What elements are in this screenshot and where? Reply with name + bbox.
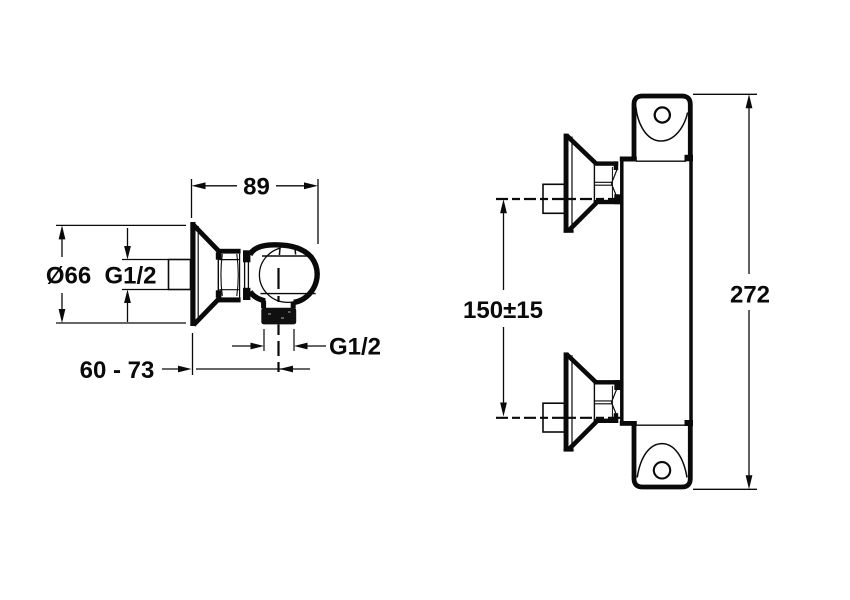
bottom plate keyhole slot curve xyxy=(637,444,687,478)
bottom inlet nut chevrons xyxy=(611,387,617,418)
dim 272 extension bottom xyxy=(693,488,757,490)
valve body outline top arc xyxy=(250,245,317,302)
valve body inner circle xyxy=(259,247,316,302)
dim G1/2 inlet extension bottom xyxy=(122,289,169,291)
dim 89 arrow left xyxy=(192,182,206,189)
dim 60-73 line xyxy=(162,368,310,370)
top plate keyhole slot curve xyxy=(636,107,688,142)
dim G1/2 outlet arrow left xyxy=(251,343,265,350)
dim G1/2 inlet arrow up xyxy=(124,290,131,304)
connector ring bottom block xyxy=(243,288,250,300)
body chord bottom xyxy=(261,293,316,295)
top plate junction left block xyxy=(620,157,637,162)
dim G1/2 outlet extension right xyxy=(293,329,295,351)
top inlet nut facet lines xyxy=(594,182,611,185)
bottom inlet nut top bar xyxy=(594,380,624,384)
bottom inlet centerline (dashed) xyxy=(496,417,622,419)
svg-text:89: 89 xyxy=(243,174,270,201)
wall flange bar (side view) xyxy=(190,222,195,326)
dim 89 extension line left xyxy=(191,179,193,218)
svg-text:Ø66: Ø66 xyxy=(46,263,91,290)
connector ring top block xyxy=(243,250,250,262)
svg-text:60 - 73: 60 - 73 xyxy=(80,357,155,384)
inlet stub (side view) xyxy=(169,260,191,290)
body bar right edge xyxy=(689,161,693,424)
dim 150±15 arrow down xyxy=(500,403,507,417)
body bar left edge xyxy=(620,158,624,422)
dim 272 extension top xyxy=(693,93,757,95)
dim Ø66 arrow up xyxy=(59,225,66,239)
wall flange inner line xyxy=(197,226,199,322)
top inlet flange bottom cap xyxy=(564,230,574,233)
hex nut left edge xyxy=(217,252,219,299)
dim Ø66 extension top xyxy=(56,224,186,226)
outlet nut (knurled, dark) xyxy=(261,308,296,325)
bottom mounting plate xyxy=(634,423,690,487)
bottom inlet stub xyxy=(543,403,565,432)
bottom inlet flange inner line xyxy=(571,355,573,449)
top inlet cone top slant xyxy=(567,135,597,164)
top inlet flange bar xyxy=(564,134,569,233)
valve body outline bottom-left arc xyxy=(250,292,265,301)
svg-text:G1/2: G1/2 xyxy=(104,263,156,290)
hex nut top bar xyxy=(218,249,241,254)
top inlet nut top bar xyxy=(594,161,619,165)
flange cone top slant xyxy=(194,225,220,251)
hex nut corner block bottom-left xyxy=(216,290,222,297)
hex nut barrel curves xyxy=(221,254,238,296)
dim Ø66 line xyxy=(61,239,63,309)
bottom inlet nut bottom bar xyxy=(594,419,619,423)
svg-text:272: 272 xyxy=(730,282,770,309)
bottom inlet nut block bottom-right xyxy=(614,413,619,423)
top plate junction right block xyxy=(685,155,694,162)
top inlet nut left edge xyxy=(593,166,595,200)
hex nut facet lines xyxy=(219,254,239,298)
dim 60-73 extension line xyxy=(192,333,194,375)
bottom inlet flange bottom cap xyxy=(564,448,574,451)
top mounting plate xyxy=(634,96,690,161)
bottom plate screw hole xyxy=(654,462,670,478)
dim 150±15 arrow up xyxy=(500,199,507,213)
dim 89 arrow right xyxy=(304,182,318,189)
top inlet stub xyxy=(543,184,565,213)
bottom inlet cone bottom slant xyxy=(569,422,597,450)
cartridge cap bump xyxy=(279,246,295,255)
dim G1/2 inlet extension top xyxy=(122,259,169,261)
top inlet nut bottom bar xyxy=(594,200,624,204)
dim G1/2 inlet arrow down xyxy=(124,246,131,260)
dim G1/2 outlet extension left xyxy=(263,329,265,351)
outlet centerline (dashed) xyxy=(277,268,279,308)
bottom inlet nut facet lines xyxy=(594,401,611,404)
dim Ø66 arrow down xyxy=(59,309,66,323)
bottom plate junction right block xyxy=(685,420,694,426)
dim Ø66 extension bottom xyxy=(56,322,186,324)
top inlet nut block bottom-right xyxy=(614,194,623,204)
dim G1/2 outlet arrow right xyxy=(294,343,308,350)
top inlet flange inner line xyxy=(571,137,573,231)
bottom inlet cone top slant xyxy=(567,354,597,383)
connector ring lines xyxy=(245,262,249,288)
bottom plate junction left block xyxy=(620,421,637,426)
hex nut corner block top-left xyxy=(216,252,222,259)
dim 89 line xyxy=(205,185,304,187)
bottom plate separation line xyxy=(636,424,686,426)
top inlet centerline (dashed) xyxy=(496,198,622,200)
top plate separation line xyxy=(636,160,686,162)
dim 272 line xyxy=(748,108,750,476)
top inlet cone bottom slant xyxy=(569,203,597,231)
dim 89 extension line right xyxy=(317,179,319,244)
hex nut bottom bar xyxy=(218,297,241,302)
dim 60-73 arrow right xyxy=(178,366,192,373)
svg-text:G1/2: G1/2 xyxy=(329,334,381,361)
dim 272 arrow down xyxy=(746,475,753,489)
top inlet nut block top-right xyxy=(614,161,619,170)
flange cone bottom slant xyxy=(194,299,220,325)
dim G1/2 inlet line xyxy=(127,228,129,322)
bottom inlet nut left edge xyxy=(593,385,595,419)
top inlet nut chevrons xyxy=(611,168,617,199)
dim 150±15 line xyxy=(503,213,505,403)
bottom inlet flange bar xyxy=(564,352,569,451)
svg-text:150±15: 150±15 xyxy=(463,297,543,324)
top plate screw hole xyxy=(655,107,670,122)
dim G1/2 outlet line xyxy=(232,345,326,347)
outlet nut speckles xyxy=(268,312,291,318)
body chord top xyxy=(262,255,313,257)
outlet neck left wall xyxy=(261,301,266,309)
bottom inlet nut block top-right xyxy=(614,380,623,390)
dim 60-73 arrow left xyxy=(280,366,294,373)
dim 272 arrow up xyxy=(746,94,753,108)
outlet neck right wall xyxy=(291,302,296,308)
